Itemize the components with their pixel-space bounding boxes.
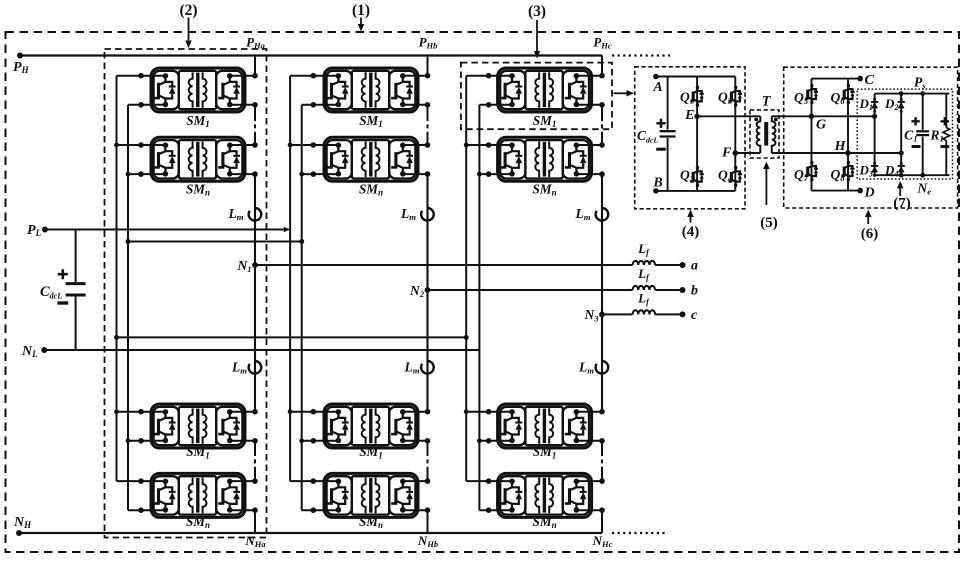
terminal dot phase-c — [486, 409, 492, 415]
polarity + of C_dc1 — [656, 119, 665, 128]
svg-text:b: b — [691, 284, 698, 299]
terminal dot phase-b — [311, 73, 317, 79]
svg-text:C1: C1 — [904, 127, 917, 143]
junction dot bus1 phase-a — [114, 409, 119, 414]
transformer dashed box (5) — [750, 110, 779, 158]
wire LV bus2 phase-c — [478, 105, 480, 510]
terminal dot phase-b — [311, 102, 317, 108]
node P_L terminal dot — [42, 227, 48, 233]
arm terminal dot phase-a — [252, 409, 258, 415]
wire arm stub phase-c y=145 — [576, 144, 602, 146]
transformer T primary winding — [757, 116, 761, 153]
wire arm phase-c — [601, 134, 603, 146]
wire LV negative tie line — [128, 241, 302, 243]
transformer T core — [764, 122, 768, 146]
wire LV stub phase-a y=104.8 — [128, 104, 165, 106]
resistor R1 branch — [945, 94, 947, 128]
transistor Q5 — [805, 84, 818, 105]
wire dashed SM continuation lower phase-c — [601, 452, 603, 469]
wire D1/D3 leg — [874, 94, 876, 176]
svg-text:(6): (6) — [861, 226, 879, 242]
svg-text:NHc: NHc — [592, 533, 613, 549]
arm terminal dot phase-a — [252, 171, 258, 177]
polarity + of C1 — [911, 117, 919, 125]
arm terminal dot phase-b — [425, 507, 431, 513]
node N_L terminal dot — [41, 347, 47, 353]
svg-text:A: A — [652, 80, 662, 95]
arm terminal dot phase-b — [425, 102, 431, 108]
svg-text:Lm: Lm — [228, 206, 244, 222]
wire arm phase-c SM1-SMn — [601, 105, 603, 117]
submodule SM1 upper phase-b — [324, 68, 418, 112]
phase-c SM1 dashed box (3) — [461, 63, 612, 130]
svg-text:D2: D2 — [884, 96, 899, 112]
submodule SMn lower phase-b — [324, 473, 418, 517]
wire N_Hb drop — [427, 510, 429, 533]
svg-text:D1: D1 — [858, 96, 873, 112]
wire LV bus1 phase-c — [465, 76, 467, 481]
arm terminal dot phase-c — [599, 409, 605, 415]
submodule SMn upper phase-b — [324, 137, 418, 181]
terminal dot phase-b — [311, 507, 317, 513]
arm terminal dot phase-a — [252, 73, 258, 79]
svg-text:SM1: SM1 — [533, 113, 557, 129]
wire P_H top rail — [20, 54, 602, 56]
transformer polarity dot secondary — [774, 118, 778, 122]
terminal dot phase-c — [486, 73, 492, 79]
svg-text:N3: N3 — [583, 307, 599, 323]
svg-text:Lf: Lf — [637, 290, 650, 306]
wire N line to L_f phase a — [255, 264, 633, 266]
wire arm stub phase-b y=411.7 — [402, 411, 427, 413]
capacitor C_dcL plates — [66, 282, 86, 285]
arm terminal dot phase-c — [599, 438, 605, 444]
callout arrow (4) — [687, 210, 694, 223]
arm terminal dot phase-c — [599, 73, 605, 79]
wire N line to L_f phase c — [602, 313, 633, 315]
wire arm phase-a lower SM1-SMn — [254, 441, 256, 452]
inductor L_f phase c — [633, 310, 656, 314]
submodule SM1 lower phase-a — [151, 404, 245, 448]
wire dashed SM continuation upper phase-b — [427, 117, 429, 134]
node H dot — [845, 150, 851, 156]
transistor Q3 — [690, 166, 704, 187]
wire arm stub phase-a y=481.1 — [229, 480, 255, 482]
wire arm stub phase-c y=411.7 — [576, 411, 602, 413]
svg-text:CdcL: CdcL — [637, 128, 658, 145]
svg-text:Lm: Lm — [575, 206, 591, 222]
wire dashed SM continuation upper phase-c — [601, 117, 603, 134]
wire LV stub phase-b y=481.1 — [290, 480, 338, 482]
capacitor C1 branch — [922, 94, 924, 130]
wire bridge bottom rail (4) — [656, 190, 735, 192]
wire LV stub phase-c y=440.8 — [479, 440, 511, 442]
wire arm stub phase-b y=145 — [402, 144, 427, 146]
wire arm stub phase-a y=411.7 — [229, 411, 255, 413]
diode D4 — [898, 162, 905, 177]
terminal dot phase-a — [138, 102, 144, 108]
arm terminal dot phase-b — [425, 438, 431, 444]
svg-text:Q4: Q4 — [718, 168, 733, 184]
wire N_H bottom rail — [19, 532, 602, 534]
svg-text:(2): (2) — [179, 2, 197, 19]
submodule SMn upper phase-a — [151, 137, 245, 181]
wire arm phase-b SM1-SMn — [427, 105, 429, 117]
auxiliary rectifier dotted box (7) — [857, 89, 952, 179]
svg-text:NHb: NHb — [417, 533, 438, 549]
node F dot — [733, 150, 739, 156]
arm terminal dot phase-b — [425, 478, 431, 484]
junction dot bus2 phase-c — [477, 438, 482, 443]
svg-text:Lm: Lm — [404, 360, 420, 376]
wire arm stub phase-b y=510.2 — [402, 509, 427, 511]
junction dot bus-a1 / tie line — [114, 335, 119, 340]
wire arm stub phase-b y=75.7 — [402, 75, 427, 77]
wire arm phase-b — [427, 134, 429, 146]
wire arm phase-b N to lower SM1 — [426, 290, 428, 412]
terminal dot phase-c — [486, 438, 492, 444]
wire arm stub phase-b y=440.8 — [402, 440, 427, 442]
junction dot rectifier bottom rail / leg2 — [899, 173, 904, 178]
wire N_L rail — [44, 349, 479, 351]
junction dot bus1 phase-c — [464, 409, 469, 414]
svg-text:(7): (7) — [893, 196, 911, 212]
terminal dot phase-c — [486, 102, 492, 108]
arrow from SM1 box to DAB detail — [614, 90, 635, 97]
wire LV bus1 phase-a — [116, 76, 118, 481]
svg-text:E: E — [684, 108, 694, 123]
transformer T secondary winding — [772, 116, 776, 153]
callout arrow (5) — [763, 162, 770, 206]
node E dot — [694, 114, 700, 120]
wire arm stub phase-c y=104.8 — [576, 104, 602, 106]
diode D3 — [871, 162, 878, 177]
wire F to transformer primary bottom — [735, 152, 760, 154]
transistor Q7 — [805, 161, 818, 182]
wire arm phase-b to Lm and N node — [426, 174, 428, 290]
wire Q2/Q4 leg — [734, 77, 736, 191]
arm terminal dot phase-a — [252, 438, 258, 444]
inductor L_m upper phase-a loop — [249, 208, 262, 221]
wire LV stub phase-c y=145 — [466, 144, 511, 146]
svg-text:D4: D4 — [884, 163, 899, 179]
wire arm stub phase-a y=440.8 — [229, 440, 255, 442]
wire rectifier bottom rail N_e — [875, 174, 950, 176]
arm terminal dot phase-b — [425, 142, 431, 148]
wire LV bus2 phase-b — [301, 105, 303, 510]
svg-text:CdcL: CdcL — [40, 284, 62, 301]
junction dot bus2 phase-b — [299, 172, 304, 177]
capacitor C_dcL branch wire top — [75, 230, 77, 283]
terminal dot phase-b — [311, 171, 317, 177]
junction dot bus-a2 / tie line — [126, 239, 131, 244]
wire LV stub phase-b y=174.1 — [302, 173, 338, 175]
wire LV stub phase-a y=174.1 — [128, 173, 165, 175]
wire Q5/Q7 leg — [811, 79, 813, 191]
terminal dot phase-c — [486, 507, 492, 513]
wire transformer secondary bottom to H and diode bridge — [772, 152, 901, 154]
node G dot — [809, 114, 815, 120]
svg-text:PH: PH — [13, 60, 30, 75]
callout arrow (6) — [865, 210, 872, 225]
wire arm phase-a to Lm and N node — [254, 174, 256, 265]
svg-text:SMn: SMn — [359, 182, 383, 198]
callout arrow (2) — [185, 18, 192, 49]
wire LV stub phase-a y=145 — [117, 144, 165, 146]
junction dot H line / D leg2 — [899, 150, 904, 155]
inductor L_m upper phase-c loop — [596, 208, 609, 221]
svg-text:a: a — [691, 259, 698, 274]
terminal dot phase-a — [138, 171, 144, 177]
polarity + of R1 — [941, 117, 949, 125]
svg-text:Lm: Lm — [231, 360, 247, 376]
terminal dot phase-c — [486, 171, 492, 177]
wire arm phase-b — [427, 469, 429, 482]
wire bridge top rail (6) — [812, 78, 861, 80]
wire arm stub phase-c y=174.1 — [576, 173, 602, 175]
svg-text:SMn: SMn — [186, 182, 210, 198]
wire P_Ha drop — [254, 56, 256, 76]
capacitor C_dcL branch wire bottom — [75, 297, 77, 351]
svg-text:(4): (4) — [682, 224, 700, 240]
DAB primary bridge dashed box (4) — [635, 67, 745, 209]
inductor L_f phase a — [633, 261, 656, 265]
inductor L_m lower phase-c loop — [596, 361, 609, 374]
terminal dot phase-a — [138, 438, 144, 444]
svg-text:Lm: Lm — [578, 360, 594, 376]
inductor L_m lower phase-b loop — [421, 361, 434, 374]
wire bridge bottom rail (6) — [812, 190, 861, 192]
polarity - of C1 — [912, 145, 921, 148]
submodule SM1 upper phase-a — [151, 68, 245, 112]
wire E to transformer primary top — [697, 115, 760, 117]
svg-text:N1: N1 — [236, 258, 251, 274]
output terminal a dot — [680, 262, 686, 268]
arm terminal dot phase-c — [599, 507, 605, 513]
wire arm stub phase-c y=481.1 — [576, 480, 602, 482]
node N3 — [599, 312, 605, 318]
capacitor C_dc1 branch — [667, 77, 669, 130]
callout arrow (1) — [358, 18, 365, 32]
transformer polarity dot primary — [754, 118, 758, 122]
arm terminal dot phase-b — [425, 73, 431, 79]
svg-text:SM1: SM1 — [359, 113, 383, 129]
svg-text:Lf: Lf — [637, 241, 650, 257]
svg-text:(5): (5) — [760, 215, 778, 231]
transistor Q2 — [728, 86, 742, 107]
terminal dot phase-c — [486, 478, 492, 484]
wire LV stub phase-b y=510.2 — [302, 509, 338, 511]
wire arm stub phase-c y=440.8 — [576, 440, 602, 442]
node D dot — [857, 188, 863, 194]
svg-text:Ps: Ps — [914, 75, 926, 91]
junction dot bus2 phase-c — [477, 172, 482, 177]
wire P_Hc drop — [601, 56, 603, 76]
wire LV stub phase-c y=481.1 — [466, 480, 511, 482]
wire LV stub phase-b y=104.8 — [302, 104, 338, 106]
svg-text:(3): (3) — [528, 3, 546, 20]
callout arrow (7) — [897, 181, 904, 196]
wire N_H rail dotted continuation — [612, 532, 668, 534]
svg-text:PHa: PHa — [246, 35, 266, 51]
output terminal c dot — [680, 311, 686, 317]
svg-text:D3: D3 — [858, 163, 873, 179]
junction dot bus2 phase-a — [126, 438, 131, 443]
wire arm stub phase-b y=481.1 — [402, 480, 427, 482]
transistor Q1 — [690, 86, 704, 107]
transistor Q4 — [728, 166, 742, 187]
wire LV stub phase-c y=174.1 — [479, 173, 511, 175]
wire arm stub phase-c y=510.2 — [576, 509, 602, 511]
svg-text:Q3: Q3 — [680, 168, 695, 184]
svg-text:G: G — [816, 118, 826, 133]
polarity + of C_dcL — [58, 269, 68, 279]
diode D2 — [898, 98, 905, 113]
submodule SM1 lower phase-b — [324, 404, 418, 448]
wire arm stub phase-a y=104.8 — [229, 104, 255, 106]
wire LV stub phase-c y=510.2 — [479, 509, 511, 511]
terminal dot phase-b — [311, 409, 317, 415]
inductor L_f phase b — [633, 286, 656, 290]
wire LV positive tie line — [117, 336, 467, 338]
svg-text:R1: R1 — [929, 127, 943, 143]
node B dot — [653, 188, 659, 194]
arm terminal dot phase-a — [252, 102, 258, 108]
submodule SMn lower phase-c — [498, 473, 592, 517]
terminal dot phase-a — [138, 142, 144, 148]
svg-text:D: D — [864, 186, 875, 201]
svg-text:(1): (1) — [352, 2, 370, 19]
wire arm stub phase-c y=75.7 — [576, 75, 602, 77]
wire arm phase-c lower SM1-SMn — [601, 441, 603, 452]
arm terminal dot phase-c — [599, 142, 605, 148]
wire arm stub phase-a y=75.7 — [229, 75, 255, 77]
svg-text:NH: NH — [13, 515, 32, 530]
arm terminal dot phase-b — [425, 409, 431, 415]
junction dot bus1 phase-c — [464, 143, 469, 148]
wire LV stub phase-b y=145 — [290, 144, 338, 146]
wire N_Hc drop — [601, 510, 603, 533]
wire LV stub phase-c y=104.8 — [479, 104, 511, 106]
wire LV stub phase-a y=440.8 — [128, 440, 165, 442]
wire L_f to output a — [655, 264, 682, 266]
secondary bridge dashed box (6) — [784, 67, 958, 208]
wire L_f to output c — [655, 313, 682, 315]
polarity - of R1 — [940, 145, 949, 148]
junction dot rectifier top rail / leg2 — [899, 91, 904, 96]
terminal dot phase-a — [138, 73, 144, 79]
svg-text:C: C — [865, 73, 875, 88]
wire arm phase-c — [601, 469, 603, 482]
svg-text:Ne: Ne — [917, 181, 932, 197]
wire arm stub phase-b y=174.1 — [402, 173, 427, 175]
terminal dot phase-a — [138, 507, 144, 513]
arm terminal dot phase-a — [252, 142, 258, 148]
svg-text:c: c — [691, 308, 698, 323]
wire Q6/Q8 leg — [847, 79, 849, 191]
terminal dot phase-c — [486, 142, 492, 148]
node A dot — [653, 74, 659, 80]
wire arm stub phase-a y=510.2 — [229, 509, 255, 511]
arm terminal dot phase-c — [599, 171, 605, 177]
transistor Q6 — [841, 84, 854, 105]
wire arm phase-c N to lower SM1 — [601, 314, 603, 411]
wire P_Hb drop — [427, 56, 429, 76]
junction dot bus1 phase-b — [288, 409, 293, 414]
wire LV stub phase-c y=75.7 — [466, 75, 511, 77]
svg-text:N2: N2 — [409, 283, 425, 299]
terminal dot phase-a — [138, 478, 144, 484]
submodule SMn upper phase-c — [498, 137, 592, 181]
wire N_Ha drop — [254, 510, 256, 533]
wire arm phase-a N to lower SM1 — [254, 265, 256, 412]
svg-text:F: F — [721, 145, 732, 160]
wire arm stub phase-b y=104.8 — [402, 104, 427, 106]
output terminal b dot — [680, 287, 686, 293]
wire L_f to output b — [655, 289, 682, 291]
arm terminal dot phase-a — [252, 478, 258, 484]
polarity - of C_dcL — [57, 301, 68, 304]
diode D1 — [871, 98, 878, 113]
svg-text:B: B — [652, 176, 662, 191]
svg-text:T: T — [762, 94, 772, 110]
node C dot — [857, 76, 863, 82]
wire dashed SM continuation lower phase-b — [427, 452, 429, 469]
wire LV bus1 phase-b — [289, 76, 291, 481]
callout arrow (3) — [534, 20, 541, 59]
polarity - of C_dc1 — [656, 148, 666, 151]
svg-text:Lf: Lf — [637, 266, 650, 282]
svg-text:PHc: PHc — [593, 35, 612, 51]
terminal dot phase-b — [311, 438, 317, 444]
wire arm phase-a — [254, 134, 256, 146]
wire arm stub phase-a y=174.1 — [229, 173, 255, 175]
wire rectifier top rail P_s — [875, 93, 950, 95]
wire arm stub phase-a y=145 — [229, 144, 255, 146]
wire arm phase-c to Lm and N node — [601, 174, 603, 314]
wire bridge top rail (4) — [656, 76, 735, 78]
arrowhead at P_L rail end — [284, 227, 290, 232]
wire LV stub phase-b y=75.7 — [290, 75, 338, 77]
svg-text:PL: PL — [27, 223, 42, 238]
wire LV stub phase-c y=411.7 — [466, 411, 511, 413]
wire LV stub phase-b y=411.7 — [290, 411, 338, 413]
svg-text:SMn: SMn — [533, 182, 557, 198]
transistor Q8 — [841, 161, 854, 182]
junction dot rectifier bottom rail / C1 — [920, 173, 925, 178]
junction dot bus-b2 / tie line — [299, 239, 304, 244]
wire LV stub phase-a y=510.2 — [128, 509, 165, 511]
svg-text:SM1: SM1 — [186, 113, 210, 129]
phase-a leg dashed box (2) — [105, 49, 267, 538]
wire dashed SM continuation upper phase-a — [254, 117, 256, 134]
wire P_H rail dotted continuation — [612, 54, 670, 56]
junction dot bus2 phase-a — [126, 172, 131, 177]
arm terminal dot phase-b — [425, 171, 431, 177]
junction dot bus1 phase-b — [288, 143, 293, 148]
wire dashed SM continuation lower phase-a — [254, 452, 256, 469]
wire P_L rail — [45, 229, 289, 231]
node N1 — [252, 262, 258, 268]
wire transformer secondary top to G and diode bridge — [772, 115, 875, 117]
wire Q1/Q3 leg — [696, 77, 698, 191]
wire arm phase-b lower SM1-SMn — [427, 441, 429, 452]
wire LV stub phase-b y=440.8 — [302, 440, 338, 442]
inductor L_m upper phase-b loop — [421, 208, 434, 221]
submodule SMn lower phase-a — [151, 473, 245, 517]
node N2 — [425, 287, 431, 293]
junction dot bus2 phase-b — [299, 438, 304, 443]
